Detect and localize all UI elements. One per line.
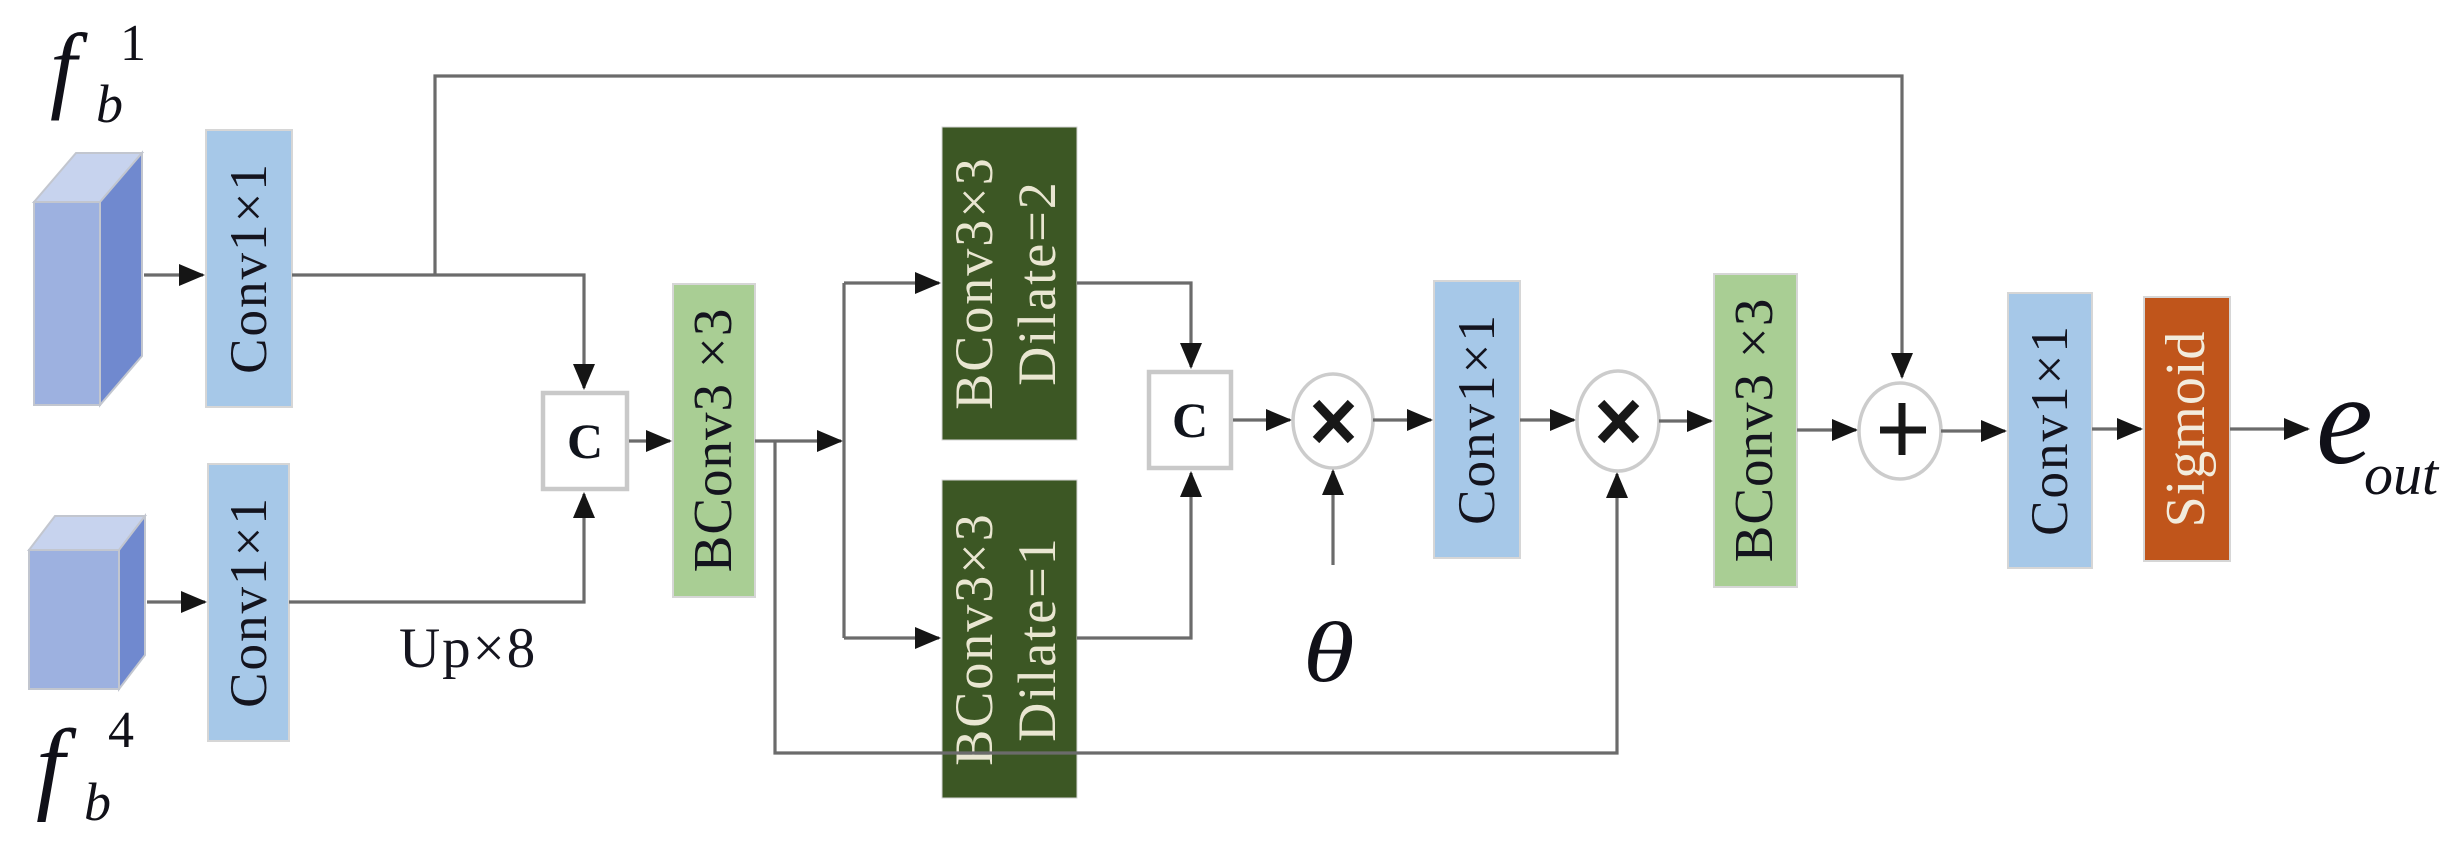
svg-text:1: 1 xyxy=(120,15,146,72)
wire Conv1x1 #4 to Sigmoid xyxy=(2092,427,2141,430)
label Up x8 xyxy=(399,617,537,680)
wire cuboid1 to Conv1x1 #1 xyxy=(144,273,203,276)
concat box C1 xyxy=(543,393,627,489)
wire split vertical xyxy=(842,283,845,638)
label theta xyxy=(1303,605,1355,700)
svg-text:θ: θ xyxy=(1303,605,1355,700)
block Sigmoid xyxy=(2144,297,2230,561)
wire Conv1x1 #1 output to C1 top xyxy=(292,275,584,388)
input tensor cuboid 1 xyxy=(34,153,142,405)
multiply circle 2 xyxy=(1577,371,1659,471)
wire C2 to multiply 1 xyxy=(1233,418,1290,421)
svg-text:Dilate=2: Dilate=2 xyxy=(1007,180,1067,385)
svg-text:Conv1×1: Conv1×1 xyxy=(2021,324,2079,536)
concat box C2 xyxy=(1149,372,1231,468)
svg-text:BConv3 ×3: BConv3 ×3 xyxy=(682,308,743,573)
block Conv1x1 #1 xyxy=(206,130,292,407)
block BConv3x3 #2 xyxy=(1714,274,1797,587)
node f_b^1 label xyxy=(50,14,146,134)
block Conv1x1 #2 xyxy=(208,464,289,741)
block BConv3x3 Dilate=1 xyxy=(942,480,1077,798)
svg-text:BConv3×3: BConv3×3 xyxy=(944,512,1004,766)
wire multiply 2 to BConv3x3 #2 xyxy=(1659,419,1711,422)
multiply circle 1 xyxy=(1293,374,1373,468)
svg-text:Up×8: Up×8 xyxy=(399,617,537,680)
svg-text:Conv1×1: Conv1×1 xyxy=(220,162,278,374)
wire branch up from junction to top long wire xyxy=(435,76,1902,377)
block Conv1x1 #4 xyxy=(2008,293,2092,568)
wire cuboid2 to Conv1x1 #2 xyxy=(147,600,205,603)
wire dark box 2 to C2 bottom xyxy=(1077,473,1191,638)
svg-text:4: 4 xyxy=(108,702,134,759)
svg-text:out: out xyxy=(2364,442,2440,507)
svg-text:Dilate=1: Dilate=1 xyxy=(1007,536,1067,741)
svg-text:BConv3×3: BConv3×3 xyxy=(944,156,1004,410)
wire split to dark box 2 xyxy=(844,636,939,639)
svg-text:C: C xyxy=(1172,392,1208,448)
wire dark box 1 to C2 top xyxy=(1077,283,1191,367)
input tensor cuboid 2 xyxy=(29,516,145,689)
add circle xyxy=(1859,383,1941,479)
block BConv3x3 #1 xyxy=(673,284,755,597)
node e_out label xyxy=(2316,349,2440,507)
wire BConv3x3 #1 to split xyxy=(755,439,841,442)
wire theta to multiply 1 xyxy=(1331,471,1334,565)
svg-text:Sigmoid: Sigmoid xyxy=(2155,331,2217,528)
svg-text:Conv1×1: Conv1×1 xyxy=(1448,313,1506,525)
block Conv1x1 #3 xyxy=(1434,281,1520,558)
wire multiply 1 to Conv1x1 #3 xyxy=(1373,418,1431,421)
svg-text:BConv3 ×3: BConv3 ×3 xyxy=(1723,298,1784,563)
wire C1 to BConv3x3 #1 xyxy=(629,439,670,442)
wire add circle to Conv1x1 #4 xyxy=(1941,429,2005,432)
wire Conv1x1 #3 to multiply 2 xyxy=(1520,418,1574,421)
node f_b^4 label xyxy=(36,702,134,832)
svg-text:C: C xyxy=(567,413,603,469)
wire bypass from junction down and right to x2 circle xyxy=(775,441,1617,753)
wire Sigmoid to output xyxy=(2230,427,2308,430)
svg-text:Conv1×1: Conv1×1 xyxy=(220,496,278,708)
wire Conv1x1 #2 output to C1 bottom xyxy=(289,494,584,602)
wire BConv3x3 #2 to add circle xyxy=(1797,428,1856,431)
svg-text:b: b xyxy=(96,74,123,134)
block BConv3x3 Dilate=2 xyxy=(942,127,1077,440)
svg-text:b: b xyxy=(84,772,111,832)
wire split to dark box 1 xyxy=(844,281,939,284)
